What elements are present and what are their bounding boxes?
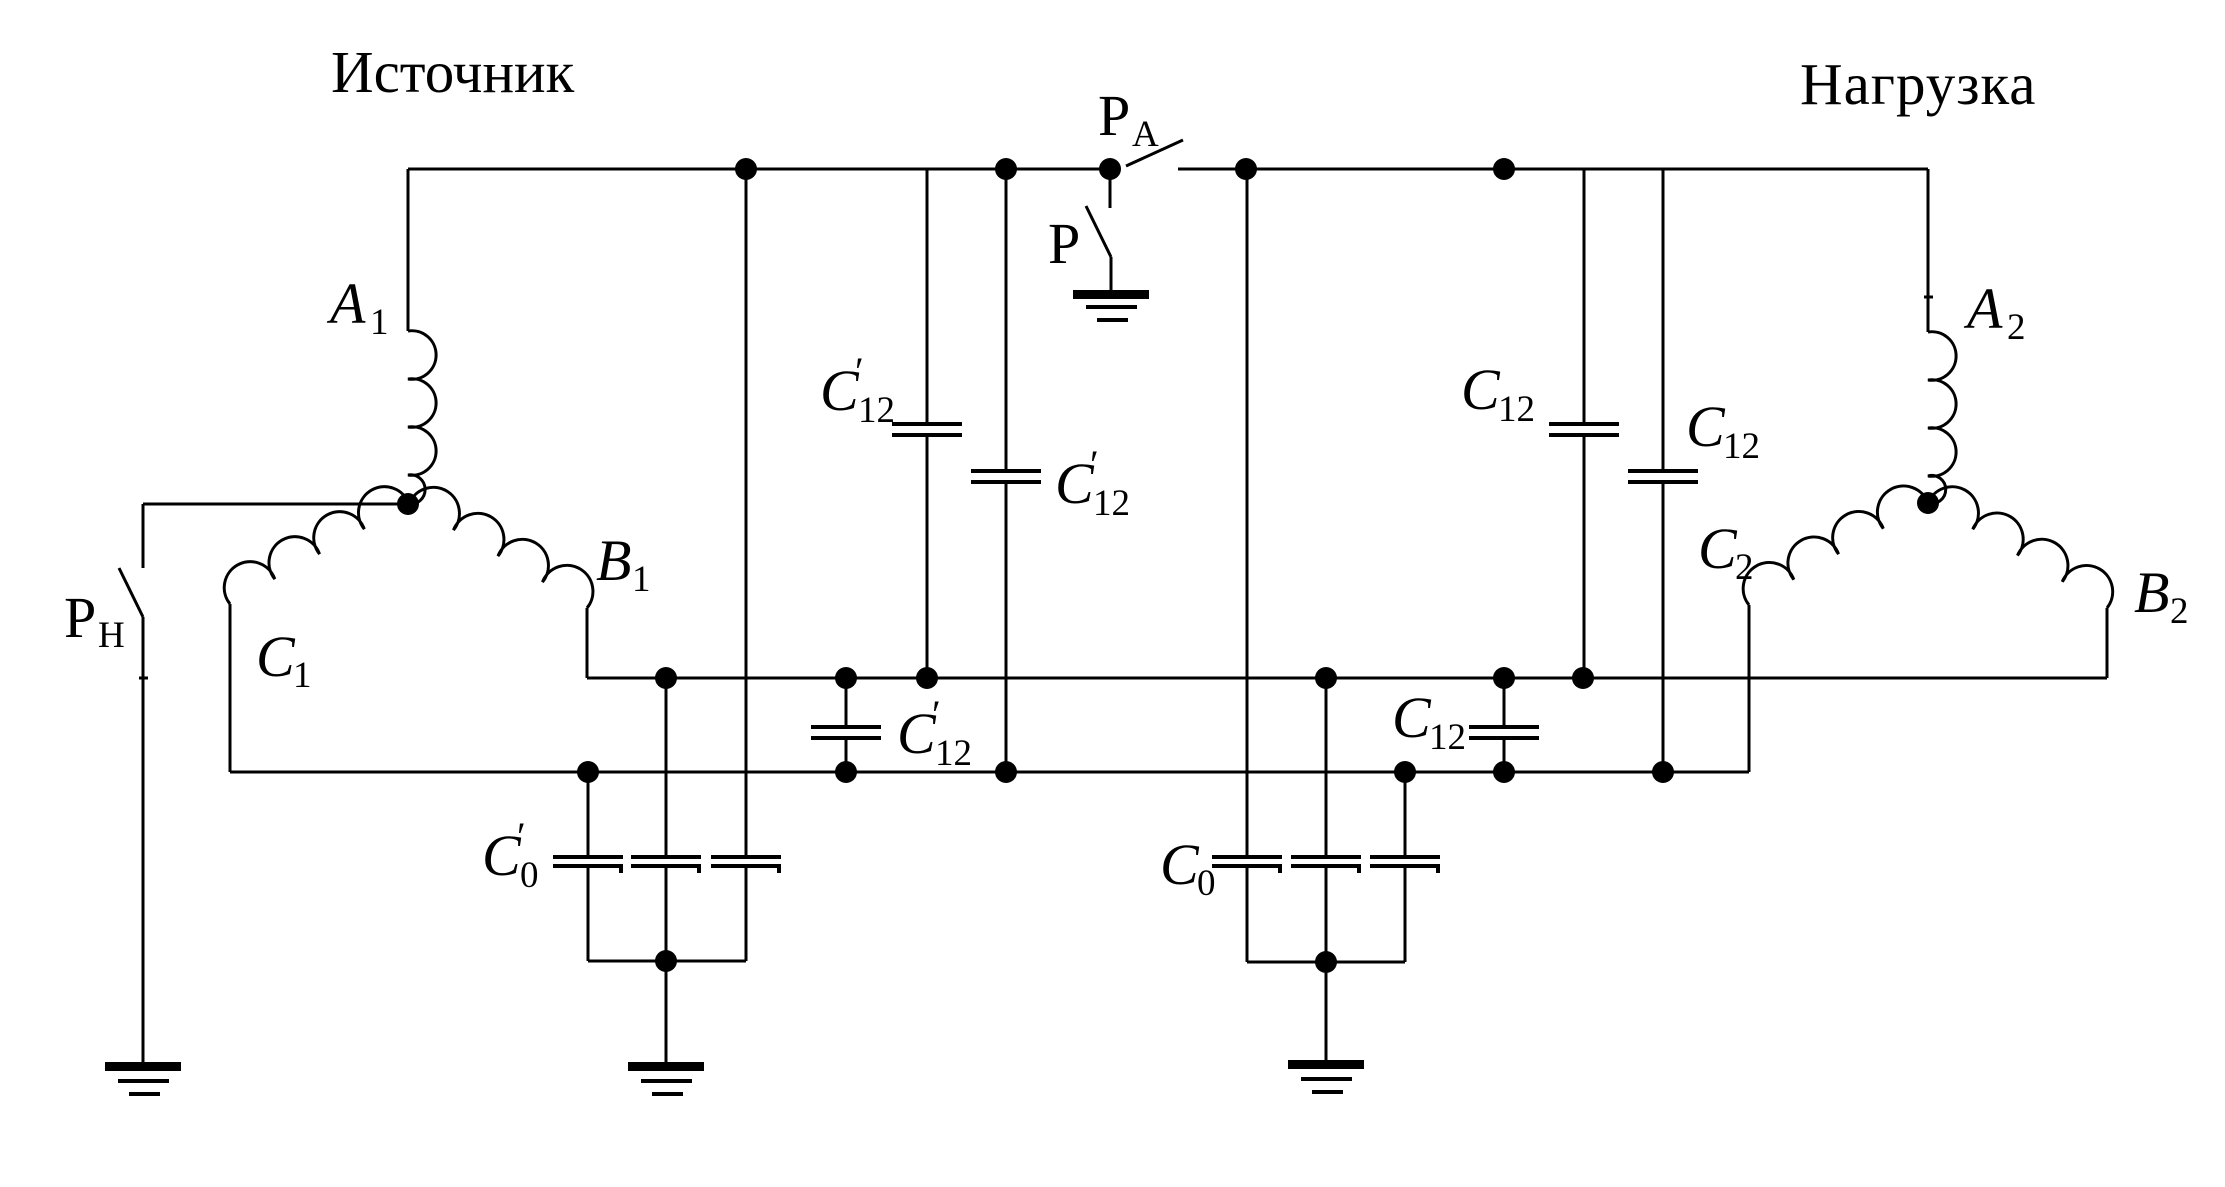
- capacitor C12 mid plates: [1469, 727, 1539, 738]
- capacitor C'0 column a leads: [587, 772, 590, 961]
- winding B1: [409, 487, 593, 608]
- wire B-bus: [587, 677, 2107, 680]
- node dot right rail: [1315, 951, 1337, 973]
- winding A1: [408, 331, 436, 505]
- node dot C-bus x1405: [1394, 761, 1416, 783]
- wire C1 lead: [229, 604, 232, 772]
- wire PH lower: [142, 617, 145, 1065]
- tick on PH wire: [139, 677, 148, 680]
- node dot C-bus x1006: [995, 761, 1017, 783]
- capacitor C'12 mid leads: [845, 678, 848, 772]
- node dot star right: [1917, 492, 1939, 514]
- capacitor C'0 column c leads: [745, 169, 748, 961]
- node dot A-bus x1246: [1235, 158, 1257, 180]
- node dot left rail: [655, 950, 677, 972]
- wire P to ground: [1110, 257, 1113, 291]
- svg-text:Источник: Источник: [331, 39, 575, 105]
- node dot A-bus x1006: [995, 158, 1017, 180]
- capacitor C0 column a leads: [1246, 169, 1249, 962]
- wire B1 lead: [586, 608, 589, 678]
- ground P: [1073, 290, 1149, 322]
- capacitor C12 column2 plates: [1628, 471, 1698, 482]
- switch PA blade: [1126, 140, 1183, 166]
- node dot B-bus x927: [916, 667, 938, 689]
- capacitor C'0 a plates: [553, 857, 623, 873]
- switch P blade: [1086, 206, 1111, 257]
- node dot C-bus x1504: [1493, 761, 1515, 783]
- capacitor C0 a plates: [1212, 857, 1282, 873]
- node dot B-bus x1326: [1315, 667, 1337, 689]
- svg-text:P: P: [1048, 211, 1080, 276]
- node dot C-bus x1663: [1652, 761, 1674, 783]
- node dot A-bus x746: [735, 158, 757, 180]
- node dot B-bus x846: [835, 667, 857, 689]
- wire star-left to PH: [143, 503, 408, 506]
- switch P stub: [1109, 169, 1112, 208]
- capacitor C12 column1 leads: [1583, 169, 1586, 678]
- node dot A-bus x1504: [1493, 158, 1515, 180]
- node dot B-bus x666: [655, 667, 677, 689]
- wire A-bus left segment: [408, 168, 1110, 171]
- switch PH upper wire: [142, 504, 145, 568]
- wire left bank ground stem: [665, 961, 668, 1065]
- capacitor C'0 column b leads: [665, 678, 668, 961]
- capacitor C'12 column1 plates: [892, 424, 962, 435]
- ground PH: [105, 1062, 181, 1096]
- capacitor C'12 column2 plates: [971, 471, 1041, 482]
- node dot C-bus x588: [577, 761, 599, 783]
- capacitor C0 column b leads: [1325, 678, 1328, 962]
- ground left bank: [628, 1062, 704, 1096]
- capacitor C0 c plates: [1370, 857, 1440, 873]
- tick on A2 lead: [1924, 296, 1933, 299]
- wire C-bus: [230, 771, 1749, 774]
- capacitor C'12 mid plates: [811, 727, 881, 738]
- wire left bank rail: [588, 960, 746, 963]
- svg-text:Нагрузка: Нагрузка: [1800, 51, 2036, 117]
- wire A1 lead: [407, 169, 410, 331]
- capacitor C0 column c leads: [1404, 772, 1407, 962]
- node dot B-bus x1504: [1493, 667, 1515, 689]
- node dot A-bus x1110 (PA pivot): [1099, 158, 1121, 180]
- wire B2 lead: [2106, 608, 2109, 678]
- winding B2: [1928, 487, 2113, 608]
- capacitor C12 mid leads: [1503, 678, 1506, 772]
- switch PH blade: [119, 568, 143, 617]
- winding C1: [224, 487, 409, 604]
- ground right bank: [1288, 1060, 1364, 1094]
- capacitor C'0 b plates: [631, 857, 701, 873]
- wire right bank ground stem: [1325, 962, 1328, 1063]
- wire right bank rail: [1247, 961, 1405, 964]
- wire C2 lead: [1748, 605, 1751, 772]
- capacitor C'12 column1 leads: [926, 169, 929, 678]
- node dot B-bus x1583: [1572, 667, 1594, 689]
- capacitor C12 column2 leads: [1662, 169, 1665, 772]
- capacitor C0 b plates: [1291, 857, 1361, 873]
- node dot C-bus x846: [835, 761, 857, 783]
- winding C2: [1743, 486, 1928, 605]
- capacitor C12 column1 plates: [1549, 424, 1619, 435]
- wire A2 lead: [1927, 169, 1930, 332]
- winding A2: [1928, 332, 1956, 504]
- capacitor C'12 column2 leads: [1005, 169, 1008, 772]
- capacitor C'0 c plates: [711, 857, 781, 873]
- node dot star left: [397, 493, 419, 515]
- wire A-bus right segment: [1178, 168, 1928, 171]
